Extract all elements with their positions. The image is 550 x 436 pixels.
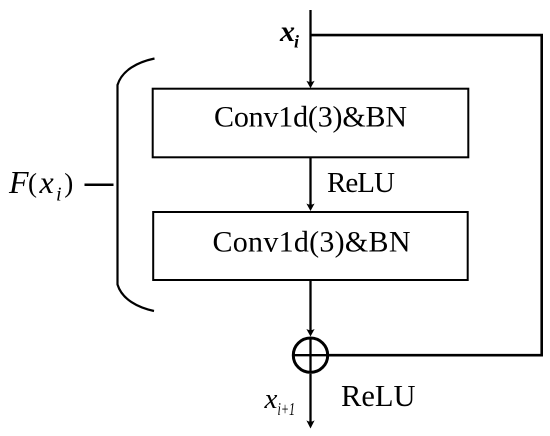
svg-text:x: x [264,383,278,415]
svg-text:ReLU: ReLU [341,379,416,413]
svg-text:i: i [294,32,299,52]
svg-text:): ) [64,168,73,198]
svg-text:x: x [39,164,54,200]
svg-text:Conv1d(3)&BN: Conv1d(3)&BN [214,100,407,133]
svg-text:F: F [8,164,29,200]
svg-text:(: ( [28,168,37,198]
svg-text:i: i [56,184,62,206]
svg-text:Conv1d(3)&BN: Conv1d(3)&BN [213,225,411,258]
svg-text:ReLU: ReLU [327,167,395,199]
svg-text:i+1: i+1 [278,399,296,419]
svg-text:x: x [279,15,295,48]
